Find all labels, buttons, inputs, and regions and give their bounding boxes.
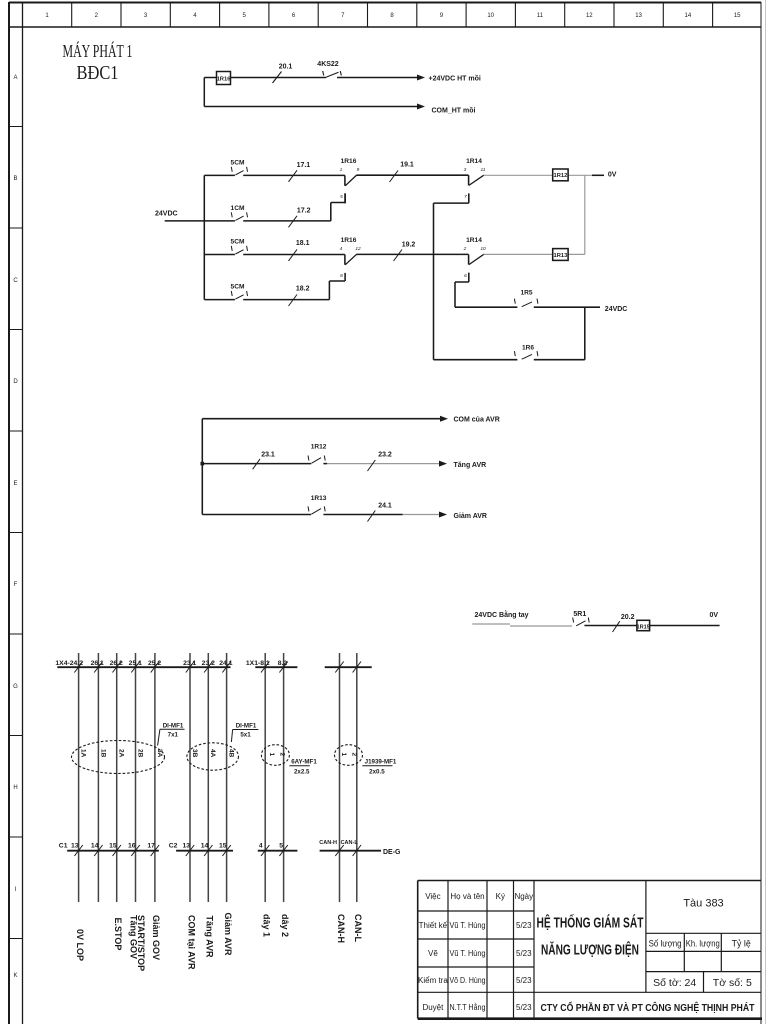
svg-text:Giảm AVR: Giảm AVR (454, 513, 487, 520)
svg-text:1: 1 (268, 753, 275, 757)
svg-text:14: 14 (91, 842, 99, 849)
svg-text:1R14: 1R14 (466, 237, 482, 244)
svg-text:5CM: 5CM (231, 160, 245, 167)
svg-text:16: 16 (128, 842, 136, 849)
svg-text:D: D (13, 379, 18, 385)
svg-text:1R13: 1R13 (311, 495, 327, 502)
svg-text:23.1: 23.1 (261, 452, 275, 459)
svg-text:14: 14 (201, 842, 209, 849)
svg-text:Vũ T. Hùng: Vũ T. Hùng (450, 949, 486, 958)
svg-text:13: 13 (71, 842, 79, 849)
svg-text:1R16: 1R16 (341, 237, 357, 244)
svg-text:DI-MF1: DI-MF1 (163, 722, 184, 729)
svg-text:B: B (13, 176, 17, 182)
svg-text:0V: 0V (608, 172, 617, 179)
svg-text:12: 12 (586, 13, 593, 19)
svg-text:Ngày: Ngày (514, 892, 533, 901)
svg-text:25.2: 25.2 (148, 660, 161, 667)
svg-text:0V: 0V (710, 612, 719, 619)
svg-text:3B: 3B (191, 749, 198, 758)
svg-text:Tờ số: 5: Tờ số: 5 (713, 977, 752, 989)
svg-text:5: 5 (279, 842, 283, 849)
svg-text:MÁY PHÁT 1: MÁY PHÁT 1 (63, 40, 133, 61)
svg-text:Giảm GOV: Giảm GOV (151, 915, 161, 960)
svg-text:1R12: 1R12 (553, 173, 567, 179)
svg-text:1R14: 1R14 (466, 158, 482, 165)
svg-text:Vẽ: Vẽ (428, 949, 438, 958)
svg-text:1R12: 1R12 (311, 444, 327, 451)
svg-text:4B: 4B (228, 749, 235, 758)
svg-text:1R15: 1R15 (637, 624, 650, 630)
svg-text:20.2: 20.2 (621, 614, 635, 621)
svg-text:2: 2 (463, 246, 467, 252)
svg-text:E.STOP: E.STOP (113, 918, 123, 951)
svg-text:17.2: 17.2 (297, 208, 311, 215)
svg-text:17: 17 (147, 842, 155, 849)
svg-text:CAN-L: CAN-L (341, 840, 359, 846)
svg-text:13: 13 (635, 13, 642, 19)
svg-text:23.1: 23.1 (183, 660, 196, 667)
svg-text:5x1: 5x1 (240, 732, 251, 739)
svg-text:G: G (13, 684, 18, 690)
svg-text:24VDC: 24VDC (155, 211, 178, 218)
svg-text:2: 2 (279, 753, 286, 757)
svg-text:4: 4 (340, 246, 343, 252)
svg-text:1R16: 1R16 (217, 76, 232, 82)
svg-text:14: 14 (685, 13, 692, 19)
svg-text:dây 1: dây 1 (262, 914, 272, 937)
svg-text:15: 15 (109, 842, 117, 849)
svg-text:1R16: 1R16 (341, 158, 357, 165)
svg-text:1B: 1B (99, 749, 106, 758)
svg-text:6AY-MF1: 6AY-MF1 (291, 758, 317, 765)
svg-text:dây 2: dây 2 (280, 914, 290, 937)
svg-text:J1939-MF1: J1939-MF1 (365, 758, 397, 765)
svg-text:1: 1 (340, 167, 343, 173)
svg-text:0V LOP: 0V LOP (75, 929, 85, 961)
svg-text:19.1: 19.1 (400, 162, 414, 169)
svg-text:8: 8 (340, 273, 343, 279)
svg-text:DI-MF1: DI-MF1 (236, 723, 257, 730)
svg-text:Kh. lượng: Kh. lượng (686, 939, 720, 949)
svg-text:Tăng AVR: Tăng AVR (454, 462, 487, 469)
svg-text:1A: 1A (80, 749, 87, 758)
svg-text:1R5: 1R5 (520, 290, 532, 297)
svg-text:CAN-L: CAN-L (353, 914, 363, 942)
svg-text:13: 13 (182, 842, 190, 849)
svg-text:19.2: 19.2 (402, 242, 416, 249)
svg-text:3A: 3A (156, 749, 163, 758)
svg-text:START/STOP: START/STOP (136, 915, 146, 971)
svg-text:Số tờ: 24: Số tờ: 24 (653, 977, 696, 989)
svg-text:BĐC1: BĐC1 (77, 62, 119, 84)
svg-text:COM của AVR: COM của AVR (454, 417, 500, 424)
svg-text:24VDC Bằng tay: 24VDC Bằng tay (475, 610, 529, 619)
svg-text:9: 9 (357, 167, 360, 173)
svg-text:C1: C1 (59, 842, 68, 849)
svg-text:Giảm AVR: Giảm AVR (223, 913, 233, 957)
svg-text:10: 10 (480, 246, 486, 252)
svg-text:1R13: 1R13 (553, 253, 568, 259)
svg-text:5/23: 5/23 (516, 1003, 532, 1012)
svg-text:Duyệt: Duyệt (422, 1003, 444, 1012)
svg-text:24.1: 24.1 (219, 660, 232, 667)
svg-text:Họ và tên: Họ và tên (450, 892, 484, 901)
svg-text:5CM: 5CM (231, 239, 245, 246)
svg-text:20.1: 20.1 (279, 64, 293, 71)
svg-text:4A: 4A (209, 749, 216, 758)
svg-text:Tàu 383: Tàu 383 (683, 898, 723, 910)
svg-text:Vũ T. Hùng: Vũ T. Hùng (450, 921, 486, 930)
svg-text:4: 4 (259, 842, 263, 849)
svg-text:F: F (14, 582, 18, 588)
svg-text:5R1: 5R1 (573, 611, 586, 618)
svg-text:17.1: 17.1 (297, 162, 311, 169)
svg-text:15: 15 (219, 842, 227, 849)
svg-text:DE-G: DE-G (383, 849, 401, 856)
svg-text:COM_HT mồi: COM_HT mồi (432, 106, 476, 115)
svg-text:12: 12 (355, 246, 361, 252)
svg-text:26.2: 26.2 (110, 660, 123, 667)
svg-text:+24VDC HT mồi: +24VDC HT mồi (429, 74, 481, 83)
svg-text:15: 15 (734, 13, 741, 19)
svg-text:C: C (13, 278, 18, 284)
svg-text:Tăng AVR: Tăng AVR (205, 916, 215, 958)
svg-text:5/23: 5/23 (516, 949, 532, 958)
svg-text:Tỷ lệ: Tỷ lệ (732, 939, 751, 949)
svg-text:24.1: 24.1 (378, 503, 392, 510)
svg-text:1: 1 (340, 753, 347, 757)
svg-text:CAN-H: CAN-H (336, 914, 346, 943)
svg-text:C2: C2 (169, 842, 178, 849)
svg-text:18.1: 18.1 (296, 240, 310, 247)
svg-text:1X4-24.2: 1X4-24.2 (55, 660, 83, 667)
svg-text:1R6: 1R6 (522, 345, 534, 352)
svg-text:H: H (13, 785, 17, 791)
svg-text:A: A (13, 75, 17, 81)
svg-text:CAN-H: CAN-H (319, 840, 337, 846)
svg-text:5/23: 5/23 (516, 976, 532, 985)
svg-text:CTY CỔ PHẦN ĐT VÀ PT CÔNG NGHỆ: CTY CỔ PHẦN ĐT VÀ PT CÔNG NGHỆ THỊNH PHÁ… (541, 1001, 756, 1014)
svg-text:Số lượng: Số lượng (649, 939, 682, 949)
svg-text:3: 3 (464, 167, 467, 173)
svg-text:8.2: 8.2 (278, 660, 288, 667)
svg-text:5: 5 (340, 194, 343, 200)
svg-text:Kiểm tra: Kiểm tra (418, 976, 448, 985)
svg-text:6: 6 (464, 273, 467, 279)
svg-text:18.2: 18.2 (296, 285, 310, 292)
svg-text:NĂNG LƯỢNG ĐIỆN: NĂNG LƯỢNG ĐIỆN (541, 941, 639, 959)
svg-text:1X1-8.1: 1X1-8.1 (246, 660, 270, 667)
svg-text:4KS22: 4KS22 (317, 61, 339, 68)
svg-text:2x0.5: 2x0.5 (369, 768, 385, 775)
svg-text:2x2.5: 2x2.5 (294, 768, 310, 775)
svg-text:2: 2 (351, 753, 358, 757)
svg-text:5CM: 5CM (231, 284, 245, 291)
svg-text:COM tại AVR: COM tại AVR (186, 915, 196, 970)
svg-text:7x1: 7x1 (168, 731, 179, 738)
svg-text:Ký: Ký (496, 892, 505, 901)
svg-text:5/23: 5/23 (516, 921, 532, 930)
svg-text:Việc: Việc (425, 892, 440, 901)
svg-text:7: 7 (464, 194, 467, 200)
svg-text:2B: 2B (136, 749, 143, 758)
svg-text:23.2: 23.2 (202, 660, 215, 667)
svg-text:E: E (13, 481, 17, 487)
svg-text:HỆ THỐNG GIÁM SÁT: HỆ THỐNG GIÁM SÁT (537, 914, 644, 932)
svg-text:23.2: 23.2 (378, 452, 392, 459)
svg-text:26.1: 26.1 (91, 660, 104, 667)
svg-text:1CM: 1CM (231, 205, 245, 212)
svg-text:N.T.T Hằng: N.T.T Hằng (450, 1003, 486, 1012)
svg-text:24VDC: 24VDC (605, 306, 628, 313)
svg-text:10: 10 (487, 13, 494, 19)
svg-text:Võ D. Hùng: Võ D. Hùng (450, 976, 486, 985)
svg-text:Thiết kế: Thiết kế (419, 921, 448, 930)
svg-text:25.1: 25.1 (129, 660, 142, 667)
svg-text:K: K (13, 973, 17, 979)
svg-text:2A: 2A (118, 749, 125, 758)
svg-text:11: 11 (481, 167, 486, 173)
svg-text:11: 11 (537, 13, 544, 19)
